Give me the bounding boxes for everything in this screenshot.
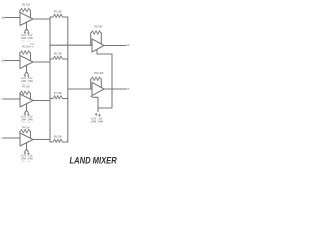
svg-text:+12V -12V: +12V -12V	[21, 156, 33, 158]
label R8 value	[54, 135, 62, 138]
svg-text:R10 10K: R10 10K	[94, 72, 104, 75]
resistor R9 feedback U5	[91, 31, 102, 35]
power V+ symbol U4	[24, 152, 26, 155]
label power rails U3	[21, 117, 34, 124]
node IN2 input label	[1, 60, 5, 63]
wire feedback right U5	[100, 33, 102, 44]
wire input 3	[5, 98, 20, 100]
node IN1 input label	[1, 17, 5, 20]
node IN3 input label	[1, 98, 5, 101]
op-amp U2	[20, 56, 33, 69]
wire U5 reference return	[97, 50, 112, 108]
wire power pins U3	[25, 104, 28, 113]
wire output U2	[33, 61, 50, 63]
resistor R6 summing channel 2	[50, 56, 68, 59]
wire feedback right U1	[30, 10, 32, 17]
svg-text:R5 10K: R5 10K	[54, 10, 62, 13]
wire to summing amp U6 input	[68, 88, 92, 90]
wire feedback left U2	[19, 53, 21, 56]
svg-text:R1 1M: R1 1M	[22, 3, 29, 6]
svg-text:out: out	[126, 43, 130, 47]
svg-text:10K: 10K	[30, 44, 34, 46]
label R7 value	[54, 92, 62, 95]
op-amp U6 summing amplifier	[92, 82, 104, 95]
resistor R4 feedback U4	[20, 129, 31, 133]
wire power pins U4	[25, 143, 28, 152]
wire feedback right U3	[30, 93, 32, 99]
wire output U3	[33, 100, 50, 102]
wire feedback left U1	[19, 10, 21, 12]
label R6 value	[54, 52, 62, 55]
label R2 value extra	[30, 44, 34, 49]
svg-text:1/4W 1/4W: 1/4W 1/4W	[21, 38, 34, 40]
wire feedback left U6	[90, 79, 92, 89]
wire input 4	[5, 137, 20, 139]
wire U6 reference return	[91, 96, 98, 111]
resistor R1 feedback U1	[20, 8, 31, 12]
op-amp U3	[20, 94, 33, 107]
svg-text:R8 10K: R8 10K	[54, 135, 62, 138]
svg-text:C1+ C1-: C1+ C1-	[22, 41, 31, 43]
svg-text:1/4W 1/4W: 1/4W 1/4W	[91, 121, 104, 124]
wire feedback right U2	[30, 53, 32, 61]
wire to summing amp U5 input	[50, 44, 92, 46]
label power rails U2	[21, 78, 34, 85]
wire output U5	[104, 45, 126, 47]
resistor R10 feedback U6	[91, 77, 102, 81]
resistor R7 summing channel 3	[50, 96, 68, 99]
node output label U6	[126, 86, 130, 90]
svg-text:LAND MIXER: LAND MIXER	[70, 156, 117, 166]
power V+ symbol U3	[24, 113, 26, 116]
wire mixing bus vertical	[67, 17, 69, 142]
label R3 value	[22, 86, 29, 89]
power V+ symbol U1	[24, 31, 26, 34]
label R4 value	[22, 126, 29, 129]
wire output U4	[33, 139, 50, 141]
power V- symbol U6	[99, 113, 101, 116]
label power rails U1	[21, 35, 34, 42]
svg-text:R4 1M: R4 1M	[22, 126, 29, 129]
resistor R8 summing channel 4	[50, 139, 68, 142]
label R2 value	[22, 46, 29, 49]
power V+ symbol U2	[24, 74, 26, 77]
wire input 1	[5, 17, 20, 19]
svg-text:R2 1M: R2 1M	[22, 46, 29, 49]
svg-text:+12V -12V: +12V -12V	[21, 78, 33, 80]
svg-text:R7 10K: R7 10K	[54, 92, 62, 95]
wire output U6	[104, 88, 126, 90]
wire feedback left U5	[90, 33, 92, 46]
svg-text:1/4W 1/4W: 1/4W 1/4W	[21, 158, 34, 160]
wire feedback left U4	[19, 131, 21, 133]
wire power pins U1	[25, 22, 28, 31]
svg-text:out: out	[126, 86, 130, 90]
svg-text:1/4W 1/4W: 1/4W 1/4W	[21, 119, 34, 121]
wire feedback right U6	[100, 79, 102, 88]
label R10 value	[94, 72, 104, 75]
svg-text:R9 10K: R9 10K	[94, 25, 102, 28]
label power rails U4	[21, 156, 34, 163]
svg-text:C3+ C3-: C3+ C3-	[22, 122, 31, 124]
wire power pins U2	[25, 65, 28, 74]
op-amp U5 summing amplifier	[92, 39, 104, 52]
node IN4 input label	[1, 137, 5, 140]
svg-text:1/4W 1/4W: 1/4W 1/4W	[21, 81, 34, 83]
node output label U5	[126, 43, 130, 47]
label R5 value	[54, 10, 62, 13]
power V- symbol U1	[27, 31, 29, 34]
power V- symbol U2	[27, 74, 29, 77]
svg-text:+12V -12V: +12V -12V	[21, 35, 33, 37]
power V- symbol U3	[27, 113, 29, 116]
resistor R5 summing channel 1	[50, 14, 68, 17]
resistor R3 feedback U3	[20, 91, 31, 95]
op-amp U1	[20, 13, 33, 26]
svg-text:R3 1M: R3 1M	[22, 86, 29, 89]
label power rails U6	[91, 118, 104, 124]
title LAND MIXER	[70, 156, 117, 166]
wire output U1	[33, 18, 50, 20]
label R9 value	[94, 25, 102, 28]
svg-text:+12V -12V: +12V -12V	[21, 117, 33, 119]
wire feedback left U3	[19, 93, 21, 94]
wire input 2	[5, 60, 20, 62]
svg-text:1%: 1%	[30, 47, 33, 49]
resistor R2 feedback U2	[20, 51, 31, 55]
label R1 value	[22, 3, 29, 6]
svg-text:C4+ C4-: C4+ C4-	[22, 161, 31, 163]
op-amp U4	[20, 133, 33, 146]
wire summing junction vertical bus	[49, 17, 51, 142]
power V- symbol U4	[27, 152, 29, 155]
power V+ symbol U6	[95, 113, 97, 116]
svg-text:R6 10K: R6 10K	[54, 52, 62, 55]
wire feedback right U4	[30, 131, 32, 138]
